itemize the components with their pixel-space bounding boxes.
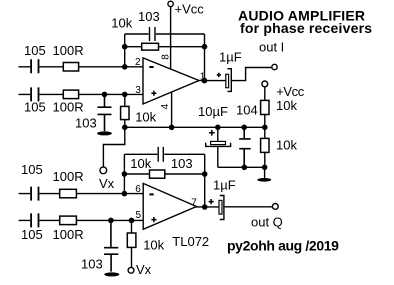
node 10k tap stage2 bbox=[129, 218, 135, 224]
resistor 100R (input I2) bbox=[63, 90, 78, 99]
op-amp U1B triangle bbox=[143, 183, 196, 229]
wire +Vcc to divider bbox=[264, 87, 266, 101]
svg-text:Vx: Vx bbox=[99, 176, 115, 191]
op-amp U1B minus mark bbox=[149, 193, 153, 195]
svg-text:10k: 10k bbox=[276, 137, 297, 152]
capacitor 1uF (output Q coupling) bbox=[219, 200, 222, 214]
svg-text:105: 105 bbox=[21, 227, 43, 242]
capacitor 1uF (output I coupling) bbox=[226, 74, 229, 87]
terminal out Q bbox=[272, 204, 278, 210]
terminal +Vcc top bbox=[168, 1, 173, 6]
svg-text:10k: 10k bbox=[111, 16, 132, 31]
resistor 10k (feedback U1B) bbox=[124, 173, 204, 175]
svg-text:py2ohh aug /2019: py2ohh aug /2019 bbox=[227, 238, 339, 254]
ground (below 103 cap stage1) bbox=[97, 131, 112, 135]
capacitor 103 (feedback U1A) bbox=[125, 27, 205, 41]
svg-text:100R: 100R bbox=[53, 169, 84, 184]
svg-text:TL072: TL072 bbox=[172, 234, 209, 249]
node pin6/feedback junction bbox=[122, 191, 128, 197]
svg-text:2: 2 bbox=[135, 57, 141, 68]
resistor 10k (feedback U1A) bbox=[125, 46, 205, 48]
terminal +Vcc right bbox=[262, 81, 268, 87]
terminal Vx (stage 2) bbox=[128, 267, 134, 273]
node feedback2 resistor left bbox=[122, 171, 128, 177]
wire pin 4 down to rail bbox=[171, 92, 173, 127]
op-amp U1B plus mark bbox=[151, 217, 156, 222]
svg-text:100R: 100R bbox=[53, 99, 84, 114]
svg-text:+Vcc: +Vcc bbox=[276, 84, 305, 99]
svg-text:105: 105 bbox=[21, 162, 43, 177]
svg-text:out Q: out Q bbox=[251, 215, 283, 230]
resistor 10k (pin 3 to Vx) bbox=[124, 94, 126, 127]
wire lower ground rail bbox=[218, 166, 265, 168]
svg-text:1µF: 1µF bbox=[213, 177, 236, 192]
capacitor 103 (feedback U1B) bbox=[124, 147, 204, 162]
svg-text:103: 103 bbox=[75, 116, 97, 131]
capacitor 105 (input Q2) bbox=[31, 213, 38, 227]
svg-text:10µF: 10µF bbox=[198, 104, 228, 119]
svg-text:Vx: Vx bbox=[136, 262, 152, 277]
wire to out Q terminal bbox=[224, 206, 273, 208]
capacitor 104 (Vx bypass) bbox=[239, 127, 251, 167]
polarity + of 1uF out I bbox=[217, 73, 221, 77]
resistor 100R (input I1) bbox=[63, 63, 78, 72]
resistor 100R (input Q1) bbox=[60, 189, 77, 198]
resistor 10k (divider upper) bbox=[261, 100, 269, 114]
svg-text:10k: 10k bbox=[135, 110, 156, 125]
node feedback2 resistor right bbox=[202, 171, 208, 177]
resistor 10k (pin 5 to Vx) bbox=[131, 220, 133, 267]
terminal out I bbox=[272, 64, 277, 69]
wire Vx rail bbox=[125, 126, 265, 128]
ground (below 103 cap stage2) bbox=[104, 272, 119, 276]
node rail/divider bbox=[262, 125, 268, 131]
wire to out I terminal bbox=[231, 68, 271, 81]
feedback box right vertical (op-amp U1B) bbox=[204, 154, 206, 207]
node output pin7 bbox=[202, 204, 208, 210]
node rail/pin4 bbox=[169, 125, 175, 131]
svg-text:103: 103 bbox=[81, 257, 103, 272]
svg-text:out I: out I bbox=[259, 40, 284, 55]
capacitor 105 (input I2) bbox=[31, 87, 38, 101]
op-amp U1A plus mark bbox=[151, 91, 156, 96]
svg-text:10k: 10k bbox=[130, 156, 151, 171]
resistor 100R (input Q2) bbox=[60, 216, 77, 225]
svg-text:103: 103 bbox=[171, 156, 193, 171]
node rail/104 bbox=[241, 125, 247, 131]
svg-text:5: 5 bbox=[136, 210, 142, 221]
wire Vx elbow to terminal bbox=[103, 127, 124, 167]
capacitor 105 (input Q1) bbox=[31, 187, 38, 201]
svg-text:10k: 10k bbox=[143, 237, 164, 252]
svg-text:100R: 100R bbox=[53, 43, 84, 58]
svg-text:10k: 10k bbox=[276, 98, 297, 113]
node feedback resistor left bbox=[122, 44, 128, 50]
svg-text:105: 105 bbox=[24, 99, 46, 114]
op-amp U1A minus mark bbox=[149, 66, 153, 68]
node 103 bypass tap stage2 bbox=[108, 218, 114, 224]
feedback box left vertical (op-amp U1B) bbox=[123, 154, 125, 193]
resistor 10k (divider lower) bbox=[261, 138, 269, 152]
node 103 bypass tap stage1 bbox=[102, 92, 108, 98]
node feedback resistor right bbox=[202, 44, 208, 50]
terminal Vx (stage 1) bbox=[100, 167, 107, 174]
wire input I2 row (pin 3 row) bbox=[19, 93, 144, 95]
capacitor 103 (input Q2 bypass) bbox=[104, 220, 118, 271]
svg-text:6: 6 bbox=[135, 184, 141, 195]
node output pin1 bbox=[202, 78, 208, 84]
svg-text:for phase receivers: for phase receivers bbox=[240, 20, 372, 36]
svg-text:7: 7 bbox=[191, 197, 197, 208]
wire output pin 7 to coupling cap bbox=[196, 206, 219, 208]
wire feedback left vertical (op-amp U1A) bbox=[124, 34, 126, 67]
wire output pin 1 to coupling cap bbox=[199, 80, 226, 82]
node pin2/feedback junction bbox=[122, 64, 128, 70]
svg-text:105: 105 bbox=[24, 43, 46, 58]
op-amp U1A triangle bbox=[143, 58, 199, 104]
wire feedback right vertical (op-amp U1A) bbox=[204, 34, 206, 81]
svg-text:104: 104 bbox=[236, 103, 258, 118]
svg-text:+Vcc: +Vcc bbox=[175, 2, 205, 17]
svg-text:103: 103 bbox=[138, 9, 160, 24]
wire input I1 row (pin 2 row) bbox=[19, 66, 144, 68]
capacitor 103 (input I2 bypass) bbox=[98, 94, 112, 131]
svg-text:1µF: 1µF bbox=[219, 50, 242, 65]
ground (below divider) bbox=[264, 167, 266, 178]
node rail/10uF bbox=[215, 125, 221, 131]
svg-text:100R: 100R bbox=[53, 227, 84, 242]
wire input Q1 row (pin 6 row) bbox=[19, 193, 144, 195]
wire input Q2 row (pin 5 row) bbox=[19, 219, 144, 221]
node 10k tap stage1 bbox=[122, 92, 128, 98]
wire +Vcc supply to pin 8 bbox=[170, 7, 172, 69]
node lower rail/divider bbox=[262, 165, 268, 171]
svg-text:4: 4 bbox=[160, 103, 171, 109]
capacitor 10uF (Vx bypass electrolytic) bbox=[217, 127, 219, 141]
capacitor 105 (input I1) bbox=[31, 59, 38, 73]
svg-text:1: 1 bbox=[200, 71, 206, 82]
polarity + of 10uF bbox=[209, 130, 215, 136]
node rail/10k stage1 bbox=[122, 125, 128, 131]
svg-text:8: 8 bbox=[161, 54, 172, 60]
polarity + of 1uF out Q bbox=[209, 199, 214, 204]
node lower rail/104 bbox=[242, 165, 248, 171]
svg-text:3: 3 bbox=[135, 85, 141, 96]
